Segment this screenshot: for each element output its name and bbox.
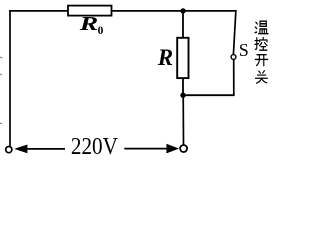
wire: top horizontal from left corner to right corner [9,10,236,12]
关 [255,71,267,84]
开 [255,55,267,66]
resistor R0 (box on top wire) [68,6,112,16]
温 [255,21,268,33]
wire: below switch down to return corner [233,59,235,95]
wire: left vertical down to left terminal [9,10,11,146]
wire: switch branch right vertical (blade of switch) [233,10,236,55]
wire: switch return horizontal to bottom junction [183,94,235,96]
wire: left arrow shaft [26,148,65,150]
terminal: right open circle [180,145,187,152]
arrow: left (points left toward left terminal) [14,145,27,154]
label 温控开关 (temperature-control switch, drawn glyphs) [255,21,268,83]
wire: from resistor R down to bottom junction [182,78,184,95]
node: top junction dot [180,8,185,13]
svg-text:R: R [79,14,99,35]
svg-text:R: R [157,45,173,70]
resistor R (vertical box) [177,38,188,78]
wire: from bottom junction down to right terminal [182,95,184,145]
svg-text:S: S [239,40,249,60]
arrow: right (points right toward right terminal) [166,144,179,154]
switch S contact circle [231,55,236,60]
svg-text:220V: 220V [71,133,119,160]
控 [255,37,267,50]
edge artifact marks (scan specks at far left) [0,57,3,124]
wire: from top junction down to resistor R [182,11,184,38]
terminal: left open circle [6,147,12,153]
wire: right arrow shaft [124,148,167,150]
svg-text:0: 0 [98,25,104,37]
node: bottom junction dot [180,93,185,98]
